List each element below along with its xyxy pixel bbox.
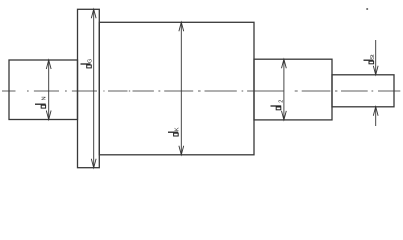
dimension line dG (flange): [91, 9, 96, 167]
svg-text:N: N: [42, 96, 48, 100]
dimension line dN: [46, 60, 51, 120]
svg-text:St: St: [370, 54, 376, 59]
left stub shaft segment: [9, 60, 78, 120]
svg-text:K: K: [174, 127, 180, 131]
flange disc: [78, 9, 100, 167]
centerline (shaft axis): [2, 90, 400, 92]
right stub shaft end: [332, 75, 394, 107]
label dN: [35, 96, 48, 108]
svg-text:2: 2: [279, 100, 285, 103]
label dSt: [364, 54, 377, 64]
svg-text:G: G: [87, 59, 93, 63]
dimension line dK: [179, 22, 184, 155]
dimension line d2: [282, 59, 287, 120]
second cylinder (step 2): [254, 59, 332, 120]
dimension line dSt lower: [373, 107, 378, 126]
big cylinder (body K): [99, 22, 254, 155]
label dK: [168, 127, 180, 136]
dimension line dSt upper: [373, 40, 378, 75]
stray speck artifact top right: [366, 8, 368, 10]
label dG: [81, 59, 94, 68]
label d2: [271, 100, 285, 110]
